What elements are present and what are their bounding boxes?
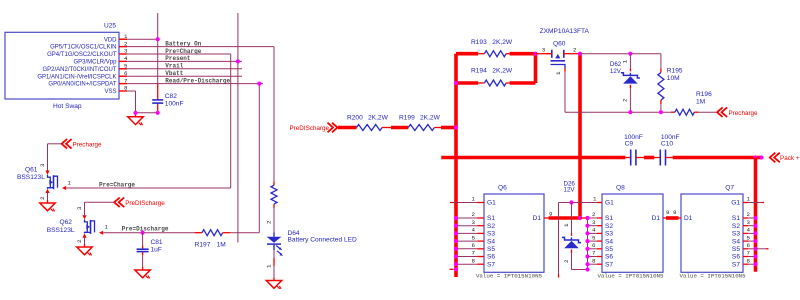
svg-text:D1: D1 bbox=[533, 215, 542, 222]
svg-text:9: 9 bbox=[673, 209, 677, 216]
svg-text:GP2/AN2/T0CKI/INT/COUT: GP2/AN2/T0CKI/INT/COUT bbox=[42, 67, 116, 73]
svg-text:Hot Swap: Hot Swap bbox=[53, 103, 82, 110]
svg-text:R195: R195 bbox=[667, 68, 683, 75]
svg-text:2: 2 bbox=[266, 220, 273, 224]
svg-text:Pre=Charge: Pre=Charge bbox=[99, 181, 135, 188]
svg-text:R199: R199 bbox=[399, 115, 415, 122]
svg-text:2: 2 bbox=[39, 196, 46, 200]
svg-text:1: 1 bbox=[266, 264, 273, 268]
svg-text:1: 1 bbox=[555, 71, 562, 75]
svg-text:Q60: Q60 bbox=[553, 41, 566, 48]
svg-text:3: 3 bbox=[747, 219, 751, 226]
svg-text:Value = IPT015N10N5: Value = IPT015N10N5 bbox=[476, 273, 543, 280]
svg-text:2: 2 bbox=[573, 47, 577, 54]
svg-text:3: 3 bbox=[592, 219, 596, 226]
svg-text:D1: D1 bbox=[652, 215, 661, 222]
svg-text:12V: 12V bbox=[564, 187, 576, 194]
svg-text:6: 6 bbox=[747, 242, 751, 249]
svg-text:C81: C81 bbox=[151, 239, 163, 246]
svg-text:S4: S4 bbox=[732, 238, 740, 245]
svg-text:Precharge: Precharge bbox=[729, 110, 759, 117]
svg-text:S4: S4 bbox=[605, 238, 613, 245]
svg-text:VDD: VDD bbox=[104, 37, 117, 43]
svg-text:Battery On: Battery On bbox=[165, 40, 201, 47]
svg-text:Present: Present bbox=[165, 55, 191, 62]
svg-text:1M: 1M bbox=[696, 99, 705, 106]
svg-text:5: 5 bbox=[592, 234, 596, 241]
svg-text:2: 2 bbox=[622, 98, 629, 102]
svg-text:Q62: Q62 bbox=[60, 219, 73, 226]
svg-text:S6: S6 bbox=[732, 254, 740, 261]
svg-text:Value = IPT015N10N5: Value = IPT015N10N5 bbox=[597, 273, 664, 280]
svg-text:S1: S1 bbox=[732, 215, 740, 222]
svg-text:GP4/T1G/OSC2/CLKOUT: GP4/T1G/OSC2/CLKOUT bbox=[47, 52, 117, 58]
svg-text:S5: S5 bbox=[487, 246, 495, 253]
svg-text:Value = IPT015N10N5: Value = IPT015N10N5 bbox=[680, 273, 747, 280]
svg-text:5: 5 bbox=[747, 234, 751, 241]
svg-text:8: 8 bbox=[747, 257, 751, 264]
svg-text:S7: S7 bbox=[605, 261, 613, 268]
svg-text:GP1/AN1/CIN-/Vref/ICSPCLK: GP1/AN1/CIN-/Vref/ICSPCLK bbox=[37, 74, 116, 80]
svg-text:Q61: Q61 bbox=[25, 167, 38, 174]
svg-text:S3: S3 bbox=[732, 231, 740, 238]
svg-text:7: 7 bbox=[472, 250, 476, 257]
svg-text:2: 2 bbox=[563, 259, 570, 263]
svg-text:Precharge: Precharge bbox=[73, 141, 103, 148]
svg-text:5: 5 bbox=[472, 234, 476, 241]
svg-text:10M: 10M bbox=[667, 75, 680, 82]
svg-text:Vrail: Vrail bbox=[165, 63, 183, 70]
svg-text:Q6: Q6 bbox=[498, 185, 507, 192]
svg-text:S1: S1 bbox=[487, 215, 495, 222]
svg-text:S5: S5 bbox=[605, 246, 613, 253]
svg-text:7: 7 bbox=[592, 250, 596, 257]
svg-text:Pre=Charge: Pre=Charge bbox=[165, 48, 201, 55]
svg-text:2: 2 bbox=[472, 211, 476, 218]
svg-text:2K,2W: 2K,2W bbox=[492, 68, 513, 75]
svg-text:G1: G1 bbox=[731, 200, 740, 207]
svg-text:1: 1 bbox=[563, 223, 570, 227]
svg-text:2: 2 bbox=[76, 239, 83, 243]
svg-text:2K,2W: 2K,2W bbox=[368, 115, 389, 122]
svg-text:3: 3 bbox=[76, 206, 83, 210]
svg-text:2K,2W: 2K,2W bbox=[492, 39, 513, 46]
svg-text:G1: G1 bbox=[605, 200, 614, 207]
svg-text:4: 4 bbox=[747, 227, 751, 234]
svg-text:1: 1 bbox=[593, 195, 597, 202]
svg-text:D1: D1 bbox=[684, 215, 693, 222]
svg-text:4: 4 bbox=[592, 227, 596, 234]
svg-text:1: 1 bbox=[472, 196, 476, 203]
svg-text:ZXMP10A13FTA: ZXMP10A13FTA bbox=[540, 28, 590, 35]
svg-text:3: 3 bbox=[472, 219, 476, 226]
svg-text:R194: R194 bbox=[471, 68, 487, 75]
svg-text:7: 7 bbox=[747, 250, 751, 257]
svg-text:1: 1 bbox=[622, 60, 629, 64]
svg-text:GP3/MCLR/Vpp: GP3/MCLR/Vpp bbox=[73, 60, 117, 66]
svg-text:2: 2 bbox=[747, 211, 751, 218]
svg-text:S2: S2 bbox=[487, 223, 495, 230]
svg-text:S3: S3 bbox=[487, 231, 495, 238]
svg-text:Pack +: Pack + bbox=[780, 155, 800, 162]
svg-text:Q7: Q7 bbox=[725, 185, 734, 192]
svg-text:1uF: 1uF bbox=[151, 247, 162, 254]
svg-text:Pre=Discharge: Pre=Discharge bbox=[122, 226, 169, 233]
svg-text:8: 8 bbox=[592, 257, 596, 264]
svg-text:Battery Connected LED: Battery Connected LED bbox=[288, 237, 358, 244]
svg-text:2: 2 bbox=[592, 211, 596, 218]
svg-text:S5: S5 bbox=[732, 246, 740, 253]
svg-text:1: 1 bbox=[68, 180, 72, 187]
svg-text:S7: S7 bbox=[487, 261, 495, 268]
svg-text:C82: C82 bbox=[165, 93, 177, 100]
svg-text:S4: S4 bbox=[487, 238, 495, 245]
svg-text:9: 9 bbox=[549, 211, 553, 218]
svg-text:GP0/AN0/CIN+/ICSPDAT: GP0/AN0/CIN+/ICSPDAT bbox=[48, 82, 116, 88]
svg-text:1: 1 bbox=[747, 196, 751, 203]
svg-text:Vbatt: Vbatt bbox=[165, 70, 183, 77]
svg-text:8: 8 bbox=[472, 257, 476, 264]
svg-text:C9: C9 bbox=[625, 141, 634, 148]
svg-text:R193: R193 bbox=[471, 39, 487, 46]
svg-text:12V: 12V bbox=[610, 68, 622, 75]
svg-text:S6: S6 bbox=[605, 254, 613, 261]
svg-text:100nF: 100nF bbox=[165, 101, 184, 108]
svg-text:BSS123L: BSS123L bbox=[17, 174, 45, 181]
svg-text:PreDIScharge: PreDIScharge bbox=[290, 125, 330, 132]
svg-text:3: 3 bbox=[542, 47, 546, 54]
svg-text:D62: D62 bbox=[610, 61, 622, 68]
svg-text:Read/Pre-Discharge: Read/Pre-Discharge bbox=[165, 77, 230, 84]
svg-text:R200: R200 bbox=[347, 115, 363, 122]
svg-text:S7: S7 bbox=[732, 261, 740, 268]
svg-text:S1: S1 bbox=[605, 215, 613, 222]
svg-text:9: 9 bbox=[666, 209, 670, 216]
svg-text:1: 1 bbox=[105, 224, 109, 231]
svg-text:PreDIScharge: PreDIScharge bbox=[125, 200, 165, 207]
svg-text:S2: S2 bbox=[605, 223, 613, 230]
svg-text:2K,2W: 2K,2W bbox=[420, 115, 441, 122]
svg-text:R196: R196 bbox=[696, 91, 712, 98]
svg-text:3: 3 bbox=[39, 163, 46, 167]
svg-text:GP5/T1CK/OSC1/CLKIN: GP5/T1CK/OSC1/CLKIN bbox=[50, 45, 116, 51]
svg-text:6: 6 bbox=[592, 242, 596, 249]
svg-text:S6: S6 bbox=[487, 254, 495, 261]
svg-text:VSS: VSS bbox=[104, 89, 116, 95]
svg-text:1M: 1M bbox=[217, 242, 226, 249]
svg-text:U25: U25 bbox=[104, 23, 116, 30]
svg-text:4: 4 bbox=[472, 227, 476, 234]
svg-text:S3: S3 bbox=[605, 231, 613, 238]
svg-text:BSS123L: BSS123L bbox=[47, 227, 75, 234]
svg-text:G1: G1 bbox=[487, 200, 496, 207]
svg-text:S2: S2 bbox=[732, 223, 740, 230]
svg-text:C10: C10 bbox=[661, 141, 673, 148]
svg-text:Q8: Q8 bbox=[616, 185, 625, 192]
svg-text:6: 6 bbox=[472, 242, 476, 249]
svg-text:R197: R197 bbox=[195, 242, 211, 249]
